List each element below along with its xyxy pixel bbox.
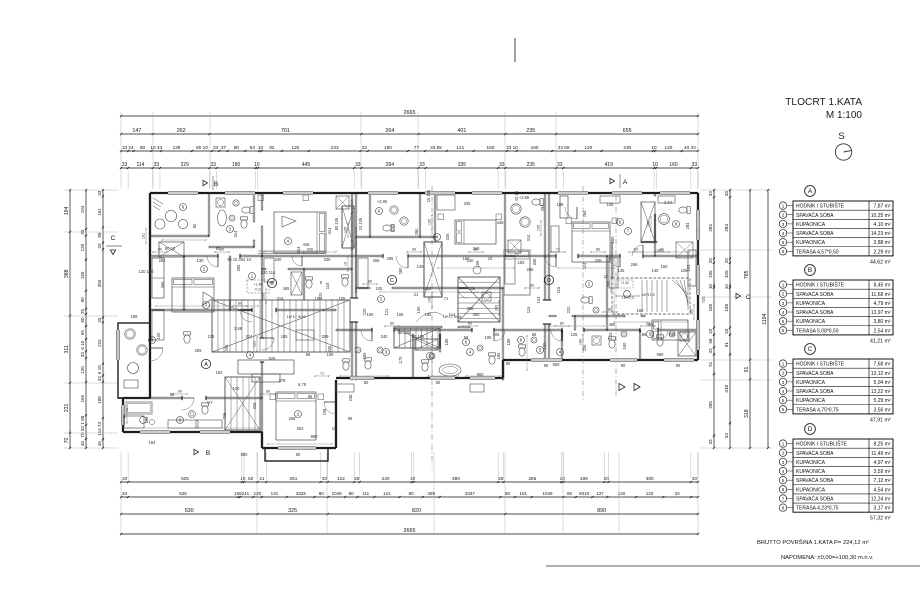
svg-text:13,12 m²: 13,12 m² (871, 371, 891, 377)
svg-text:121: 121 (253, 341, 257, 347)
svg-text:295: 295 (387, 256, 395, 261)
svg-text:880: 880 (241, 452, 249, 457)
svg-text:65: 65 (80, 330, 85, 336)
svg-text:445: 445 (302, 162, 311, 168)
svg-text:114: 114 (582, 262, 587, 269)
svg-text:230: 230 (623, 145, 631, 150)
svg-text:236: 236 (224, 344, 229, 352)
svg-text:170: 170 (398, 356, 403, 364)
svg-text:90: 90 (178, 390, 182, 394)
svg-text:13,22 m²: 13,22 m² (871, 389, 891, 395)
svg-text:SPAVAĆA SOBA: SPAVAĆA SOBA (796, 388, 834, 395)
svg-text:B: B (808, 267, 812, 274)
svg-text:120: 120 (291, 145, 299, 150)
svg-text:33: 33 (675, 491, 681, 496)
svg-text:100: 100 (156, 332, 161, 340)
svg-text:120 114: 120 114 (261, 270, 276, 275)
svg-text:103: 103 (608, 332, 613, 340)
svg-text:160: 160 (416, 306, 421, 314)
svg-text:80: 80 (505, 491, 511, 496)
svg-text:80: 80 (390, 322, 394, 326)
svg-text:80: 80 (436, 380, 441, 385)
svg-text:120: 120 (665, 145, 673, 150)
svg-text:4: 4 (782, 389, 785, 394)
svg-text:701: 701 (281, 128, 290, 134)
svg-text:137: 137 (596, 491, 604, 496)
svg-text:120: 120 (318, 292, 323, 300)
svg-text:335: 335 (532, 258, 537, 266)
svg-text:37: 37 (221, 145, 227, 150)
svg-text:325: 325 (288, 508, 297, 514)
svg-text:1: 1 (782, 203, 785, 208)
svg-text:80: 80 (238, 302, 242, 306)
svg-text:C: C (746, 295, 751, 301)
svg-text:33: 33 (97, 243, 102, 249)
svg-text:41: 41 (259, 476, 265, 481)
svg-text:180: 180 (232, 162, 241, 168)
svg-text:185: 185 (444, 338, 449, 346)
svg-text:18: 18 (332, 426, 337, 431)
svg-text:264: 264 (386, 162, 395, 168)
svg-text:2: 2 (782, 451, 785, 456)
svg-text:1194: 1194 (762, 313, 768, 324)
svg-text:80: 80 (506, 361, 511, 366)
svg-text:10: 10 (240, 476, 246, 481)
svg-text:60: 60 (80, 317, 85, 323)
svg-text:160: 160 (661, 264, 669, 269)
svg-text:189: 189 (580, 476, 588, 481)
svg-text:C: C (808, 346, 813, 353)
svg-text:165: 165 (80, 394, 85, 402)
svg-text:460: 460 (473, 312, 481, 317)
svg-text:105: 105 (571, 332, 579, 337)
svg-text:259: 259 (322, 334, 330, 339)
svg-text:SPAVAĆA SOBA: SPAVAĆA SOBA (796, 212, 834, 219)
svg-text:180: 180 (622, 342, 627, 350)
svg-text:3: 3 (782, 380, 785, 385)
svg-text:B: B (206, 450, 210, 457)
svg-text:105: 105 (344, 227, 348, 233)
svg-text:224: 224 (277, 296, 285, 301)
svg-text:92: 92 (269, 145, 275, 150)
svg-text:318: 318 (724, 384, 729, 392)
svg-text:91: 91 (724, 342, 729, 348)
svg-text:TERASA 4,23*0,75: TERASA 4,23*0,75 (796, 506, 839, 512)
svg-text:2: 2 (782, 371, 785, 376)
svg-text:262: 262 (177, 128, 186, 134)
svg-text:266: 266 (527, 267, 535, 272)
svg-text:120: 120 (254, 491, 262, 496)
svg-text:2: 2 (782, 292, 785, 297)
svg-text:4,10 m²: 4,10 m² (874, 222, 891, 228)
svg-text:25: 25 (498, 476, 504, 481)
svg-text:355: 355 (236, 264, 241, 272)
svg-text:240: 240 (275, 257, 283, 262)
svg-text:HODNIK I STUBIŠTE: HODNIK I STUBIŠTE (796, 282, 845, 289)
svg-text:236: 236 (582, 344, 587, 352)
svg-text:226: 226 (252, 402, 257, 410)
svg-text:33: 33 (122, 145, 128, 150)
svg-text:133: 133 (646, 491, 654, 496)
svg-text:240: 240 (382, 476, 390, 481)
svg-text:335: 335 (464, 201, 472, 206)
svg-text:860: 860 (477, 372, 485, 377)
svg-text:16*17,5: 16*17,5 (622, 296, 634, 300)
svg-text:11,49 m²: 11,49 m² (871, 451, 891, 457)
svg-text:80: 80 (192, 223, 197, 228)
svg-text:B: B (214, 181, 218, 188)
svg-text:160: 160 (531, 145, 539, 150)
svg-text:33: 33 (362, 145, 368, 150)
svg-text:BRUTTO POVRŠINA 1.KATA P= 22: BRUTTO POVRŠINA 1.KATA P= 224,12 m² (757, 539, 869, 546)
svg-text:33: 33 (213, 145, 219, 150)
svg-text:140: 140 (428, 297, 432, 303)
svg-text:20: 20 (708, 258, 713, 264)
svg-text:630: 630 (185, 508, 194, 514)
svg-text:111: 111 (362, 491, 369, 496)
svg-text:80 10: 80 10 (196, 145, 208, 150)
svg-text:280: 280 (610, 236, 615, 244)
svg-text:355: 355 (97, 279, 102, 287)
svg-text:388: 388 (64, 269, 70, 278)
svg-text:105: 105 (485, 335, 493, 340)
svg-text:12,24 m²: 12,24 m² (871, 497, 891, 503)
svg-text:4: 4 (782, 231, 785, 236)
svg-text:A: A (204, 362, 208, 368)
svg-text:33: 33 (692, 476, 698, 481)
svg-text:980: 980 (311, 434, 319, 439)
svg-text:33 65: 33 65 (430, 145, 442, 150)
svg-text:80: 80 (158, 248, 162, 252)
svg-text:33: 33 (419, 162, 425, 168)
svg-text:284: 284 (708, 224, 713, 232)
svg-text:33: 33 (724, 328, 729, 334)
svg-text:10 105: 10 105 (358, 217, 363, 230)
svg-text:3,17 m²: 3,17 m² (874, 506, 891, 512)
svg-text:33: 33 (80, 352, 85, 358)
svg-text:80: 80 (409, 491, 415, 496)
svg-text:80: 80 (140, 145, 146, 150)
svg-text:294: 294 (540, 204, 545, 212)
svg-text:5,04 m²: 5,04 m² (874, 380, 891, 386)
svg-text:140: 140 (417, 264, 425, 269)
svg-text:161: 161 (142, 233, 146, 239)
svg-text:130: 130 (197, 258, 205, 263)
svg-text:820: 820 (412, 508, 421, 514)
svg-text:318: 318 (744, 409, 750, 418)
svg-text:3337: 3337 (465, 491, 476, 496)
svg-text:3333: 3333 (296, 491, 307, 496)
svg-text:77: 77 (414, 145, 420, 150)
svg-text:314: 314 (233, 230, 238, 238)
svg-text:105: 105 (493, 332, 501, 337)
svg-text:33: 33 (708, 328, 713, 334)
svg-text:33: 33 (708, 191, 713, 197)
svg-text:71: 71 (556, 248, 560, 252)
svg-text:10: 10 (652, 162, 658, 168)
svg-text:294: 294 (582, 210, 587, 218)
svg-text:TERASA 4,57*0,50: TERASA 4,57*0,50 (796, 249, 839, 255)
svg-text:14,23 m²: 14,23 m² (871, 231, 891, 237)
svg-text:122: 122 (337, 476, 345, 481)
svg-text:100: 100 (390, 224, 395, 232)
svg-text:7: 7 (782, 496, 785, 501)
svg-text:160: 160 (669, 162, 678, 168)
svg-text:+1,48: +1,48 (254, 283, 263, 287)
svg-text:C: C (390, 278, 394, 284)
svg-text:+1,48: +1,48 (620, 281, 628, 285)
svg-text:2,29 m²: 2,29 m² (874, 249, 891, 255)
svg-text:259: 259 (195, 348, 203, 353)
svg-text:80: 80 (319, 491, 325, 496)
svg-text:785: 785 (744, 270, 750, 279)
svg-text:465: 465 (609, 322, 617, 327)
svg-text:6 10: 6 10 (80, 340, 85, 349)
svg-text:NAPOMENA: ±0,00=+100,30 m.n.v: NAPOMENA: ±0,00=+100,30 m.n.v. (781, 555, 874, 561)
svg-text:33: 33 (322, 476, 328, 481)
svg-text:33: 33 (210, 162, 216, 168)
svg-text:33: 33 (97, 376, 102, 382)
svg-text:5: 5 (782, 319, 785, 324)
svg-text:71: 71 (320, 372, 324, 376)
svg-text:10: 10 (258, 145, 264, 150)
svg-text:445: 445 (497, 220, 505, 225)
svg-text:231: 231 (64, 403, 70, 412)
svg-text:70: 70 (64, 437, 70, 443)
svg-text:860: 860 (553, 362, 561, 367)
svg-text:335: 335 (595, 258, 603, 263)
svg-text:10 105: 10 105 (412, 334, 425, 339)
svg-text:105: 105 (708, 270, 713, 278)
svg-text:335: 335 (458, 162, 467, 168)
svg-text:TERASA 5,08*0,50: TERASA 5,08*0,50 (796, 328, 839, 334)
svg-text:184: 184 (149, 440, 157, 445)
svg-text:25: 25 (354, 476, 360, 481)
svg-text:335: 335 (324, 257, 332, 262)
svg-text:2,54 m²: 2,54 m² (874, 328, 891, 334)
svg-text:10: 10 (560, 476, 566, 481)
svg-text:1062: 1062 (234, 491, 245, 496)
svg-text:185: 185 (690, 309, 694, 315)
svg-text:445: 445 (303, 242, 311, 247)
svg-text:105: 105 (724, 270, 729, 278)
svg-text:1: 1 (782, 441, 785, 446)
svg-text:103: 103 (536, 296, 541, 304)
svg-text:200: 200 (307, 248, 313, 252)
svg-text:525: 525 (179, 491, 187, 496)
svg-text:A: A (623, 179, 628, 186)
svg-text:419: 419 (605, 162, 614, 168)
svg-text:264: 264 (385, 128, 394, 134)
svg-text:105: 105 (428, 219, 432, 225)
svg-text:80: 80 (596, 248, 600, 252)
svg-text:41: 41 (244, 491, 250, 496)
svg-text:1: 1 (782, 282, 785, 287)
svg-text:21: 21 (414, 292, 419, 297)
svg-text:B: B (270, 281, 274, 287)
svg-text:71: 71 (646, 322, 650, 326)
svg-text:80: 80 (608, 308, 612, 312)
svg-text:KUPAONICA: KUPAONICA (796, 222, 826, 228)
svg-text:58: 58 (708, 338, 713, 344)
svg-text:465: 465 (283, 286, 291, 291)
svg-text:20: 20 (724, 258, 729, 264)
svg-text:SPAVAĆA SOBA: SPAVAĆA SOBA (796, 450, 834, 457)
svg-text:251: 251 (290, 476, 298, 481)
svg-text:147: 147 (132, 128, 141, 134)
svg-text:KUPAONICA: KUPAONICA (796, 380, 826, 386)
svg-text:160: 160 (367, 312, 375, 317)
svg-text:240: 240 (381, 334, 389, 339)
svg-text:105: 105 (376, 286, 384, 291)
svg-text:10: 10 (254, 162, 260, 168)
svg-text:3,59 m²: 3,59 m² (874, 469, 891, 475)
svg-text:D: D (547, 278, 551, 284)
svg-text:715: 715 (222, 412, 227, 420)
svg-text:41,21 m²: 41,21 m² (870, 338, 891, 344)
svg-text:105: 105 (647, 221, 651, 227)
svg-text:D: D (808, 426, 813, 433)
svg-text:380: 380 (646, 476, 654, 481)
svg-text:80: 80 (468, 322, 472, 326)
svg-text:56: 56 (306, 352, 311, 357)
svg-text:44,62 m²: 44,62 m² (870, 259, 891, 265)
svg-text:24: 24 (128, 145, 134, 150)
svg-text:47,91 m²: 47,91 m² (870, 417, 891, 423)
svg-text:188: 188 (97, 396, 102, 404)
svg-text:6010: 6010 (579, 491, 590, 496)
svg-text:401: 401 (457, 128, 466, 134)
svg-text:7,68 m²: 7,68 m² (874, 362, 891, 368)
svg-text:238: 238 (322, 408, 327, 416)
svg-text:80: 80 (634, 248, 638, 252)
svg-text:160: 160 (637, 308, 645, 313)
svg-text:5,29 m²: 5,29 m² (874, 398, 891, 404)
svg-text:390: 390 (452, 476, 460, 481)
svg-text:91: 91 (708, 361, 713, 367)
svg-text:80: 80 (368, 280, 372, 284)
svg-text:105: 105 (208, 334, 216, 339)
svg-text:TERASA 4,75*0,75: TERASA 4,75*0,75 (796, 407, 839, 413)
svg-text:2665: 2665 (404, 528, 416, 534)
svg-text:13,97 m²: 13,97 m² (871, 310, 891, 316)
svg-text:114: 114 (136, 162, 144, 168)
svg-text:8,25 m²: 8,25 m² (874, 442, 891, 448)
svg-text:229: 229 (181, 162, 190, 168)
svg-text:62: 62 (248, 476, 254, 481)
svg-text:76 10 394 10: 76 10 394 10 (227, 257, 252, 262)
svg-text:80: 80 (544, 363, 549, 368)
svg-text:135: 135 (618, 268, 626, 273)
svg-text:10: 10 (344, 262, 348, 266)
svg-text:115: 115 (556, 286, 561, 293)
svg-text:33: 33 (557, 162, 563, 168)
svg-text:235: 235 (527, 162, 536, 168)
svg-text:33: 33 (692, 162, 698, 168)
svg-text:185: 185 (425, 312, 433, 317)
svg-text:6: 6 (782, 328, 785, 333)
svg-text:266: 266 (528, 476, 536, 481)
svg-text:10: 10 (488, 256, 493, 261)
svg-text:33: 33 (708, 439, 713, 445)
svg-text:131: 131 (271, 491, 279, 496)
svg-text:SPAVAĆA SOBA: SPAVAĆA SOBA (796, 370, 834, 377)
svg-text:185: 185 (362, 352, 367, 360)
svg-text:56: 56 (532, 332, 537, 337)
svg-text:4,97 m²: 4,97 m² (874, 460, 891, 466)
svg-text:10 33: 10 33 (150, 145, 162, 150)
svg-text:188: 188 (131, 314, 139, 319)
svg-text:105: 105 (686, 264, 691, 272)
svg-text:80 105: 80 105 (334, 217, 339, 230)
svg-text:33: 33 (724, 191, 729, 197)
svg-text:HODNIK I STUBLIŠTE: HODNIK I STUBLIŠTE (796, 441, 848, 448)
svg-text:120: 120 (233, 386, 241, 391)
svg-text:70 33: 70 33 (80, 426, 85, 438)
svg-text:655: 655 (623, 128, 632, 134)
svg-text:80: 80 (530, 284, 534, 288)
svg-text:233: 233 (331, 145, 339, 150)
svg-text:10: 10 (651, 145, 657, 150)
svg-text:57,32 m²: 57,32 m² (870, 516, 891, 522)
svg-text:33: 33 (122, 162, 128, 168)
svg-text:108: 108 (607, 202, 615, 207)
svg-text:3: 3 (782, 301, 785, 306)
svg-text:266: 266 (373, 258, 381, 263)
svg-text:115: 115 (325, 282, 330, 289)
svg-text:33: 33 (708, 348, 713, 354)
svg-text:525: 525 (181, 476, 189, 481)
svg-text:120: 120 (80, 366, 85, 374)
svg-text:33 69: 33 69 (558, 145, 570, 150)
svg-text:80: 80 (234, 145, 240, 150)
svg-text:5: 5 (782, 398, 785, 403)
svg-text:355: 355 (160, 281, 165, 289)
svg-text:KUPAONICA: KUPAONICA (796, 301, 826, 307)
svg-text:KUPAONICA: KUPAONICA (796, 319, 826, 325)
svg-text:114 73: 114 73 (97, 422, 102, 436)
svg-text:311: 311 (64, 345, 70, 353)
svg-text:105: 105 (537, 225, 541, 231)
svg-text:120: 120 (80, 243, 85, 251)
svg-text:980: 980 (657, 352, 665, 357)
svg-text:151: 151 (520, 491, 528, 496)
svg-text:284: 284 (685, 222, 690, 230)
svg-text:85: 85 (308, 394, 313, 399)
svg-text:1 88: 1 88 (80, 415, 85, 424)
svg-text:3,80 m²: 3,80 m² (874, 319, 891, 325)
svg-text:3,56 m²: 3,56 m² (874, 407, 891, 413)
svg-text:80: 80 (97, 232, 102, 238)
svg-text:KUPAONICA: KUPAONICA (796, 398, 826, 404)
svg-text:3: 3 (782, 460, 785, 465)
svg-text:105: 105 (469, 286, 477, 291)
svg-text:8: 8 (782, 506, 785, 511)
svg-text:71: 71 (444, 296, 449, 301)
svg-text:KUPAONICA: KUPAONICA (796, 487, 826, 493)
svg-text:80: 80 (123, 414, 127, 418)
svg-text:+2,86: +2,86 (377, 199, 388, 204)
svg-text:10: 10 (410, 476, 416, 481)
svg-text:185: 185 (506, 338, 511, 346)
svg-text:91: 91 (744, 366, 750, 372)
svg-text:2: 2 (782, 213, 785, 218)
svg-text:188: 188 (557, 202, 565, 207)
svg-text:262: 262 (159, 258, 167, 263)
svg-text:2 84: 2 84 (664, 200, 673, 205)
svg-text:2665: 2665 (404, 110, 416, 116)
svg-text:165: 165 (475, 260, 480, 268)
